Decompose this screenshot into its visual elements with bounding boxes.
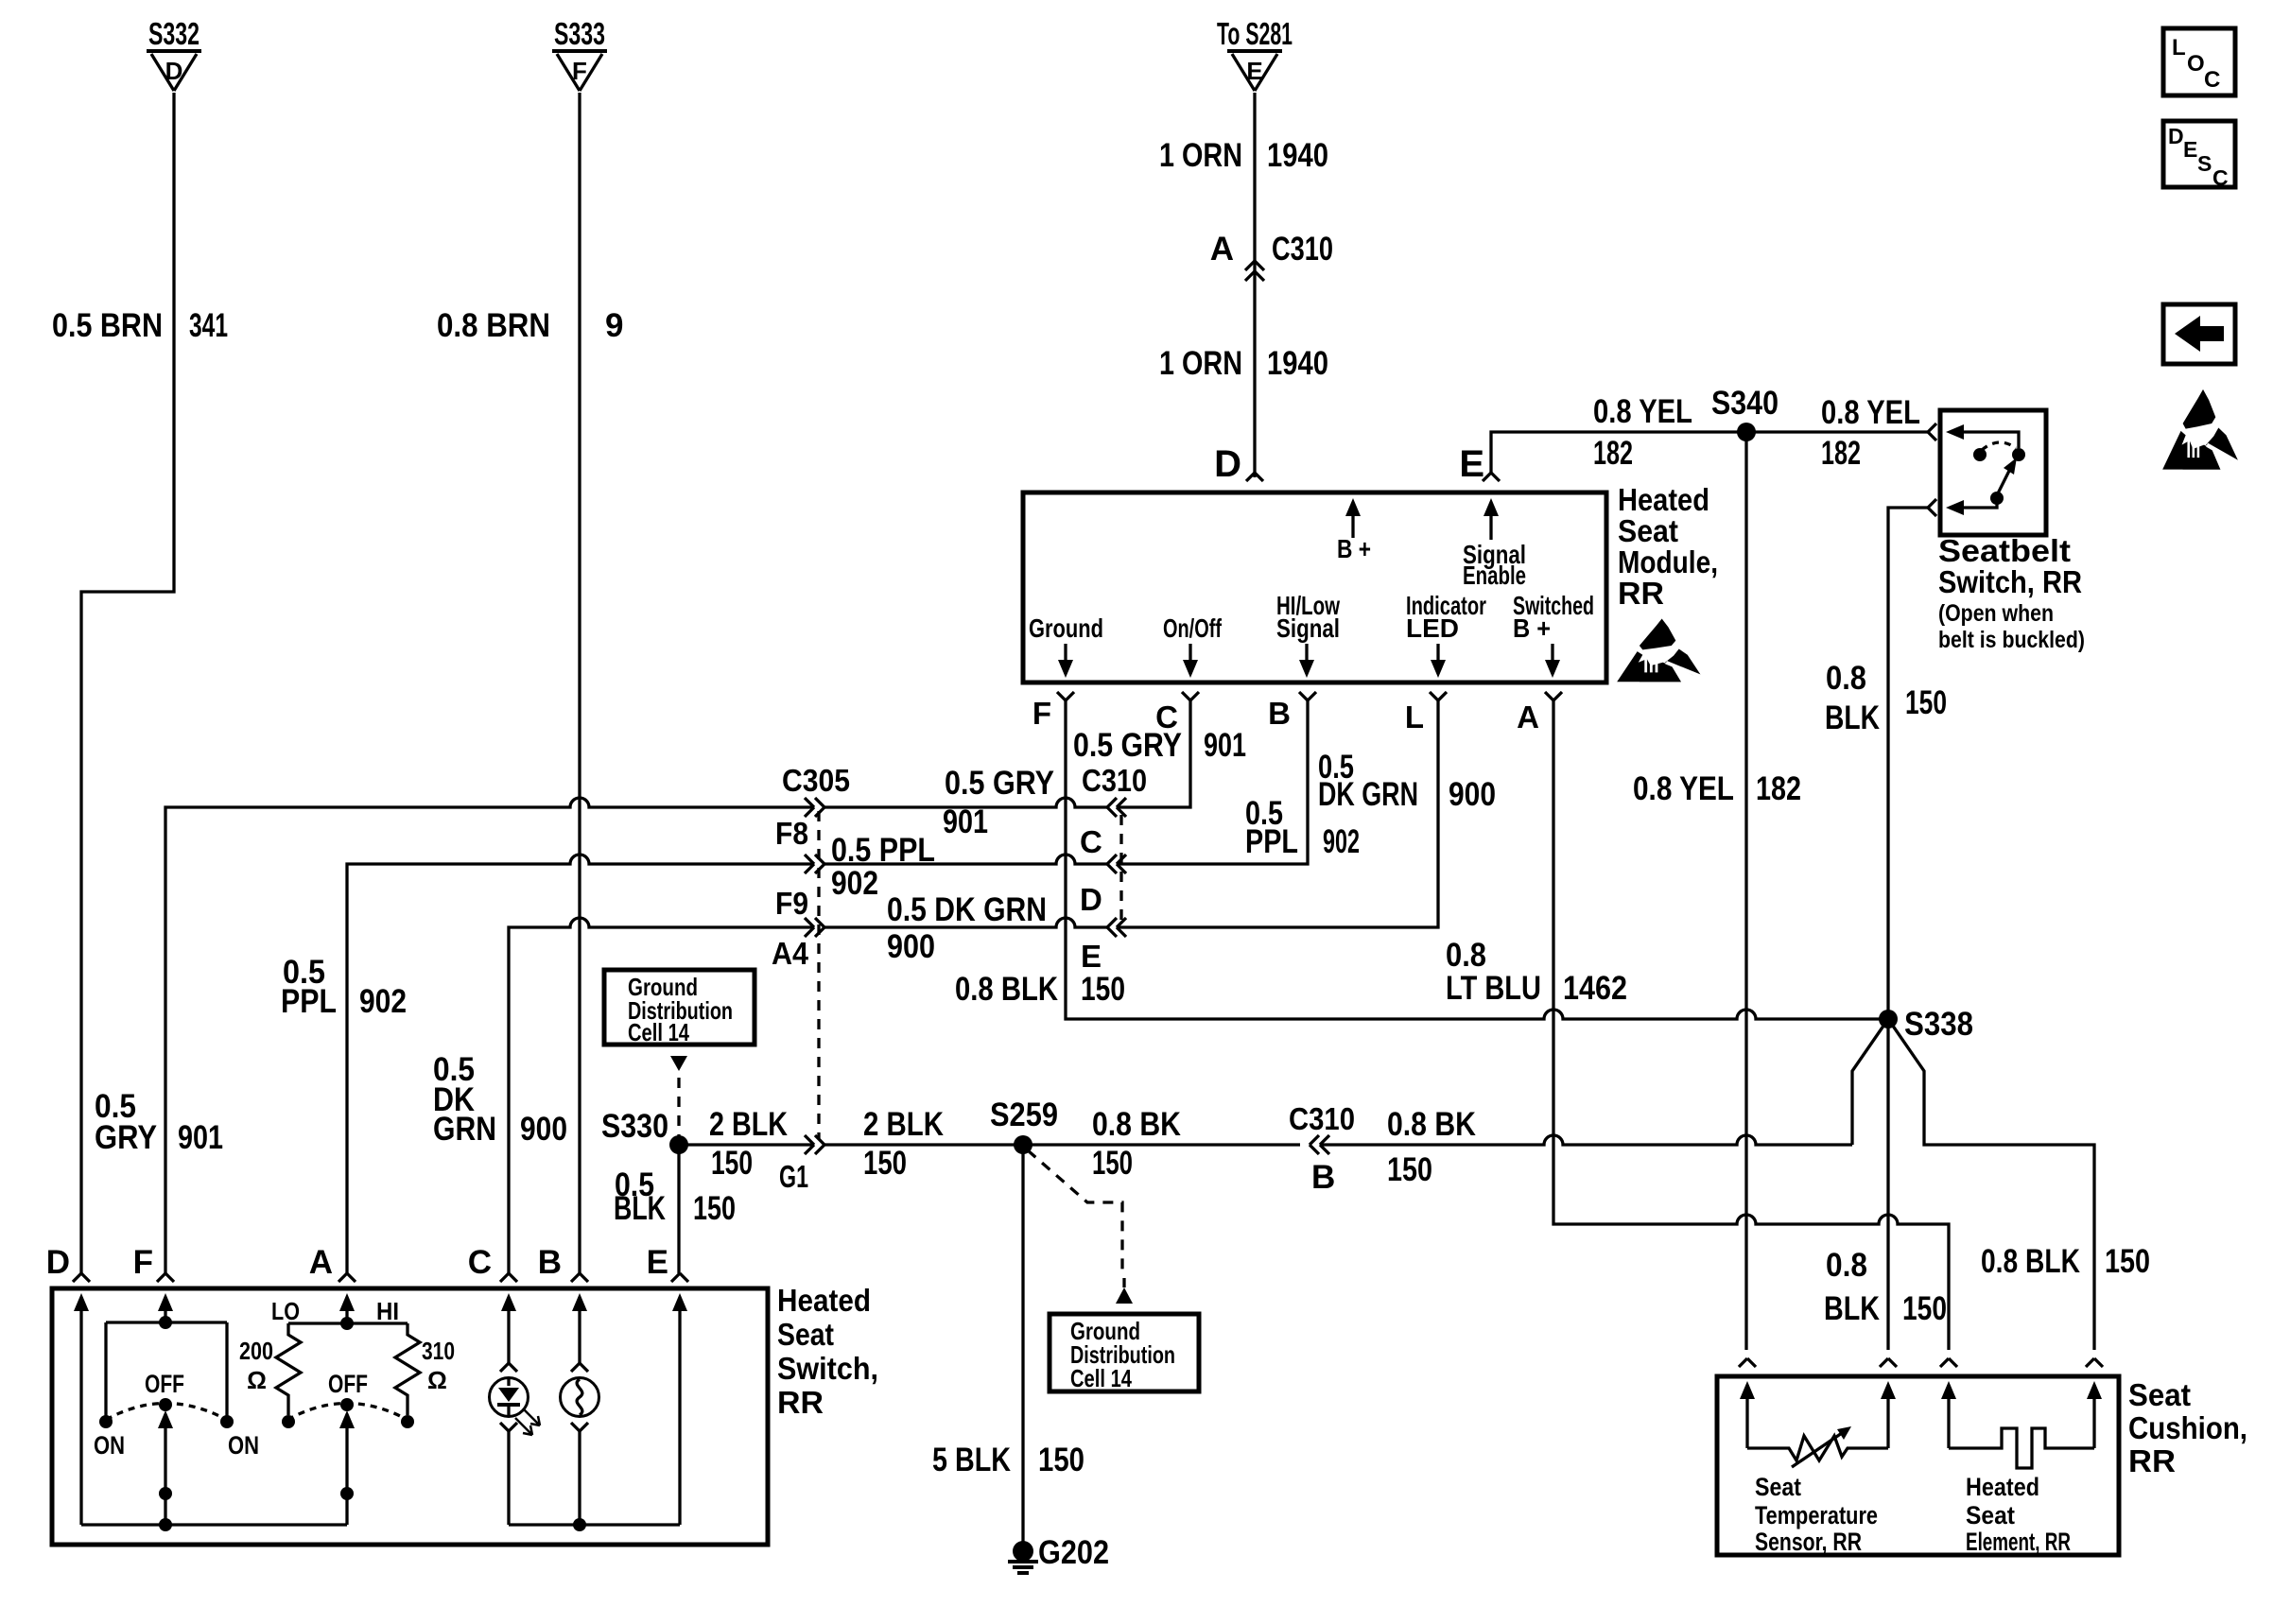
connector C310 pin A on ORN wire xyxy=(1245,261,1264,270)
svg-text:2 BLK: 2 BLK xyxy=(709,1106,788,1143)
wire 0.5 GRY 901 left run xyxy=(165,798,814,1273)
wire 0.5 DK GRN 900 left run xyxy=(509,918,814,1273)
svg-text:901: 901 xyxy=(943,803,988,840)
back-arrow icon xyxy=(2163,304,2235,364)
svg-text:150: 150 xyxy=(693,1190,736,1227)
svg-text:Seat: Seat xyxy=(2128,1377,2191,1412)
svg-text:(Open when: (Open when xyxy=(1938,600,2054,627)
svg-text:S259: S259 xyxy=(990,1097,1058,1133)
svg-text:GRN: GRN xyxy=(433,1111,496,1148)
svg-text:LED: LED xyxy=(1406,613,1459,643)
svg-text:900: 900 xyxy=(520,1111,567,1148)
svg-text:Heated: Heated xyxy=(1966,1473,2039,1501)
svg-text:To S281: To S281 xyxy=(1217,16,1293,51)
svg-text:G202: G202 xyxy=(1038,1534,1109,1571)
svg-text:OFF: OFF xyxy=(328,1370,368,1398)
C310 connector chevrons row D xyxy=(1107,855,1117,873)
svg-text:900: 900 xyxy=(1449,776,1496,813)
Ground Distribution Cell 14 box right xyxy=(1050,1314,1199,1391)
on/off OFF contact xyxy=(159,1398,172,1411)
svg-text:0.5 GRY: 0.5 GRY xyxy=(945,765,1054,802)
svg-text:BLK: BLK xyxy=(1824,1290,1880,1327)
ground bus to S259 and C310 B xyxy=(824,1143,1300,1146)
resistor 310 ohm xyxy=(395,1323,420,1415)
module internal Signal Enable arrow xyxy=(1489,514,1492,540)
C305 chevrons row A4 xyxy=(805,918,814,937)
lo/hi dashed travel arc xyxy=(287,1404,408,1421)
wire 0.5 BRN 341 from S332 to switch pin D xyxy=(81,93,174,1273)
svg-text:Switch, RR: Switch, RR xyxy=(1938,564,2082,599)
svg-text:902: 902 xyxy=(359,983,407,1020)
svg-text:E: E xyxy=(1081,939,1102,974)
svg-text:1940: 1940 xyxy=(1267,345,1328,382)
svg-text:902: 902 xyxy=(1323,823,1360,860)
svg-text:Seat: Seat xyxy=(1618,513,1678,548)
svg-text:E: E xyxy=(1459,443,1484,485)
svg-text:O: O xyxy=(2187,51,2205,77)
svg-text:Cushion,: Cushion, xyxy=(2128,1410,2247,1445)
svg-text:182: 182 xyxy=(1821,435,1861,472)
splice S340 xyxy=(1737,423,1756,441)
svg-text:1940: 1940 xyxy=(1267,137,1328,174)
svg-text:F8: F8 xyxy=(775,816,808,851)
svg-text:On/Off: On/Off xyxy=(1163,613,1222,643)
svg-text:A: A xyxy=(1210,231,1234,268)
svg-text:0.8 YEL: 0.8 YEL xyxy=(1593,393,1692,430)
svg-text:C310: C310 xyxy=(1082,763,1147,798)
svg-text:B +: B + xyxy=(1513,613,1551,643)
svg-text:C: C xyxy=(2212,165,2229,190)
svg-text:0.5 BRN: 0.5 BRN xyxy=(52,307,163,344)
C310 connector chevrons row E xyxy=(1107,918,1117,937)
svg-text:E: E xyxy=(2183,137,2197,162)
svg-text:E: E xyxy=(647,1244,668,1281)
splice S259 xyxy=(1014,1135,1032,1154)
Seat Cushion RR box xyxy=(1717,1376,2119,1555)
svg-text:Heated: Heated xyxy=(1618,482,1709,517)
svg-text:ON: ON xyxy=(228,1431,259,1460)
C310 pin B chevrons xyxy=(1310,1135,1319,1154)
svg-text:B: B xyxy=(1311,1159,1335,1196)
wire 1 ORN 1940 upper xyxy=(1253,93,1256,477)
ground wire 0.8 BK 150 C310 B to S338 xyxy=(1320,1135,1852,1145)
wire 0.8 YEL 182 S340 down to seat cushion pin 1 xyxy=(1744,432,1747,1350)
module pin forks below xyxy=(1057,692,1074,700)
svg-text:Cell 14: Cell 14 xyxy=(1070,1364,1132,1392)
wire 5 BLK 150 S259 to G202 xyxy=(1021,1145,1024,1551)
svg-text:200: 200 xyxy=(239,1337,273,1365)
wire 0.5 GRY 901 module On/Off pin C to C310 xyxy=(1119,700,1190,807)
svg-text:D: D xyxy=(1214,443,1241,485)
svg-text:F: F xyxy=(572,57,587,85)
svg-text:310: 310 xyxy=(422,1337,455,1365)
resistor 200 ohm xyxy=(276,1323,301,1415)
svg-text:S332: S332 xyxy=(148,16,200,51)
svg-text:902: 902 xyxy=(831,865,878,902)
Seatbelt Switch RR box xyxy=(1940,410,2046,535)
svg-text:A4: A4 xyxy=(772,936,809,971)
seatbelt second contact xyxy=(1973,448,1987,461)
wire 0.5 PPL 902 module HI/Low pin B to C310 xyxy=(1119,700,1308,864)
switch ground bus xyxy=(81,1523,347,1526)
svg-text:0.8 BLK: 0.8 BLK xyxy=(1981,1243,2080,1280)
ESD symbol top right xyxy=(2162,389,2239,470)
svg-text:belt is buckled): belt is buckled) xyxy=(1938,627,2085,653)
svg-text:Module,: Module, xyxy=(1618,544,1718,579)
lo/hi wiper arrow xyxy=(345,1425,348,1525)
svg-text:S333: S333 xyxy=(554,16,605,51)
svg-text:LT BLU: LT BLU xyxy=(1446,970,1541,1007)
C305 chevrons row F9 xyxy=(805,855,814,873)
svg-text:Temperature: Temperature xyxy=(1755,1501,1878,1529)
svg-text:C: C xyxy=(2204,67,2220,93)
svg-text:G1: G1 xyxy=(779,1159,808,1194)
svg-text:L: L xyxy=(1405,700,1424,734)
svg-text:0.8 BRN: 0.8 BRN xyxy=(437,307,550,344)
svg-text:182: 182 xyxy=(1593,435,1633,472)
switch pin D internal wire to bus xyxy=(79,1328,82,1525)
svg-text:5 BLK: 5 BLK xyxy=(932,1442,1011,1478)
svg-text:BLK: BLK xyxy=(614,1190,666,1227)
ground G202 xyxy=(1013,1541,1033,1562)
svg-text:0.8 BK: 0.8 BK xyxy=(1387,1106,1476,1143)
C305 chevrons row F8 xyxy=(805,798,814,817)
wire 0.5 BLK 150 S330 to switch pin E xyxy=(677,1145,680,1273)
svg-text:150: 150 xyxy=(711,1145,753,1182)
splice S330 xyxy=(669,1135,688,1154)
svg-text:Heated: Heated xyxy=(777,1283,871,1318)
svg-text:182: 182 xyxy=(1756,770,1801,807)
svg-text:0.8 YEL: 0.8 YEL xyxy=(1821,394,1920,431)
wire 0.8 BRN 9 from S333 to switch pin B xyxy=(578,93,581,1273)
seatbelt internal top wire xyxy=(1961,432,2019,448)
svg-text:150: 150 xyxy=(1081,971,1125,1008)
svg-text:A: A xyxy=(1517,700,1539,734)
wire 0.8 BLK 150 seatbelt to S338 and seat cushion pin 2 xyxy=(1888,508,1928,1350)
C305 pin G1 chevrons xyxy=(805,1135,814,1154)
svg-text:D: D xyxy=(165,57,183,85)
svg-text:150: 150 xyxy=(1092,1145,1133,1182)
svg-text:150: 150 xyxy=(1038,1442,1084,1478)
pointer triangle above right GD box xyxy=(1116,1287,1133,1304)
svg-text:150: 150 xyxy=(1387,1151,1432,1188)
svg-text:901: 901 xyxy=(1204,727,1246,764)
svg-text:ON: ON xyxy=(94,1431,125,1460)
heated seat element xyxy=(1949,1428,2094,1468)
svg-text:Switch,: Switch, xyxy=(777,1351,878,1386)
svg-text:1 ORN: 1 ORN xyxy=(1159,137,1242,174)
svg-text:RR: RR xyxy=(2128,1443,2176,1478)
dashed path S259 to right GD box xyxy=(1028,1150,1122,1276)
switch pin forks xyxy=(73,1273,90,1282)
svg-text:0.5 PPL: 0.5 PPL xyxy=(831,832,935,869)
module internal B+ arrow xyxy=(1351,514,1354,538)
svg-text:Cell 14: Cell 14 xyxy=(628,1018,689,1046)
svg-text:Ω: Ω xyxy=(247,1366,267,1394)
wire 0.5 DK GRN 900 module Indicator pin L to C310 xyxy=(1119,700,1438,927)
Heated Seat Switch RR box xyxy=(52,1288,768,1545)
seat cushion pin forks xyxy=(1739,1358,1756,1367)
svg-text:F9: F9 xyxy=(775,886,808,921)
switch internal pin arrows xyxy=(74,1293,89,1311)
svg-text:Element, RR: Element, RR xyxy=(1966,1528,2071,1556)
svg-text:RR: RR xyxy=(777,1385,824,1420)
seatbelt movable arm xyxy=(1997,469,2010,495)
LED common bus xyxy=(509,1523,680,1526)
svg-text:D: D xyxy=(2168,124,2184,148)
S338 right branch to seat cushion pin 4 xyxy=(1888,1019,2094,1350)
svg-text:2 BLK: 2 BLK xyxy=(863,1106,944,1143)
svg-text:B: B xyxy=(538,1244,562,1281)
svg-text:C305: C305 xyxy=(782,763,850,798)
seat temperature sensor xyxy=(1747,1436,1888,1460)
svg-text:LO: LO xyxy=(271,1297,300,1325)
svg-text:0.8 BK: 0.8 BK xyxy=(1092,1106,1181,1143)
svg-text:C310: C310 xyxy=(1272,231,1333,268)
svg-text:Ω: Ω xyxy=(427,1366,447,1394)
svg-text:C: C xyxy=(1080,824,1102,859)
svg-text:RR: RR xyxy=(1618,576,1664,611)
svg-text:0.5 GRY: 0.5 GRY xyxy=(1073,727,1182,764)
svg-text:S338: S338 xyxy=(1904,1006,1973,1043)
svg-text:0.8: 0.8 xyxy=(1826,1247,1867,1284)
wire 0.8 LT BLU 1462 module A to seat cushion pin 3 xyxy=(1553,700,1949,1350)
svg-text:HI: HI xyxy=(376,1297,399,1325)
lo/hi switch top bar xyxy=(288,1323,408,1328)
switch pin E internal wire xyxy=(678,1328,681,1525)
svg-text:B +: B + xyxy=(1337,534,1371,563)
on/off dashed travel arc xyxy=(106,1404,227,1421)
wire 0.8 YEL 182 module E to seatbelt switch xyxy=(1491,432,1928,473)
C310 dashed connector line xyxy=(1119,815,1122,922)
svg-text:901: 901 xyxy=(178,1119,223,1156)
svg-text:DK GRN: DK GRN xyxy=(1318,776,1418,813)
svg-text:D: D xyxy=(46,1244,70,1281)
svg-text:C: C xyxy=(468,1244,492,1281)
seatbelt internal bottom wire xyxy=(1961,498,1997,508)
svg-text:S340: S340 xyxy=(1711,385,1778,422)
S338 left branch to ground bus xyxy=(1852,1019,1888,1145)
svg-text:PPL: PPL xyxy=(1245,823,1298,860)
svg-text:OFF: OFF xyxy=(145,1370,184,1398)
seatbelt dashed travel arc xyxy=(1982,442,2016,450)
on/off wiper arrow xyxy=(164,1425,166,1525)
svg-text:Seat: Seat xyxy=(1966,1501,2015,1529)
svg-text:A: A xyxy=(309,1244,333,1281)
seatbelt switch connector forks xyxy=(1928,423,1936,441)
splice S338 xyxy=(1879,1010,1898,1028)
svg-text:0.8: 0.8 xyxy=(1826,660,1866,697)
svg-text:Seat: Seat xyxy=(777,1317,834,1352)
svg-text:Seat: Seat xyxy=(1755,1473,1801,1501)
module internal down arrows xyxy=(1064,644,1067,662)
svg-text:9: 9 xyxy=(605,307,623,344)
Ground Distribution Cell 14 box left xyxy=(604,970,755,1045)
wire 0.8 BLK 150 module Ground pin F down to S338 xyxy=(1066,700,1888,1019)
DESC icon xyxy=(2163,121,2235,187)
ground bus wire 2 BLK 150 xyxy=(679,1143,814,1146)
Heated Seat Module RR box xyxy=(1023,492,1606,682)
svg-text:E: E xyxy=(1246,57,1262,85)
svg-text:C310: C310 xyxy=(1289,1101,1355,1136)
indicator lamp xyxy=(578,1328,581,1363)
seat cushion internal arrows xyxy=(1740,1381,1755,1399)
LOC icon xyxy=(2163,28,2235,95)
svg-text:341: 341 xyxy=(189,307,228,344)
svg-text:BLK: BLK xyxy=(1825,700,1880,736)
svg-text:S330: S330 xyxy=(601,1108,668,1145)
svg-text:150: 150 xyxy=(1902,1290,1947,1327)
svg-text:GRY: GRY xyxy=(95,1119,157,1156)
seatbelt fixed contact xyxy=(2012,448,2025,461)
svg-text:150: 150 xyxy=(2105,1243,2150,1280)
svg-text:D: D xyxy=(1080,882,1102,917)
svg-text:F: F xyxy=(1032,696,1051,731)
pointer triangle below left GD box xyxy=(670,1056,687,1071)
svg-text:150: 150 xyxy=(863,1145,907,1182)
svg-text:Sensor, RR: Sensor, RR xyxy=(1755,1528,1862,1556)
svg-text:S: S xyxy=(2197,151,2212,176)
svg-text:B: B xyxy=(1268,696,1291,731)
svg-text:0.8 BLK: 0.8 BLK xyxy=(955,971,1058,1008)
svg-text:0.5 DK GRN: 0.5 DK GRN xyxy=(887,891,1047,928)
on/off switch contacts xyxy=(106,1322,227,1422)
svg-text:Signal: Signal xyxy=(1276,613,1340,643)
svg-text:150: 150 xyxy=(1905,684,1947,721)
ESD symbol at module xyxy=(1617,618,1701,682)
wire 0.5 PPL 902 left run xyxy=(347,855,814,1273)
svg-text:Ground: Ground xyxy=(1029,613,1103,643)
C310 connector chevrons row C xyxy=(1107,798,1117,817)
svg-text:Seatbelt: Seatbelt xyxy=(1938,533,2071,568)
svg-text:F: F xyxy=(133,1244,153,1281)
svg-text:1462: 1462 xyxy=(1563,970,1627,1007)
svg-text:0.8 YEL: 0.8 YEL xyxy=(1633,770,1734,807)
lo/hi OFF contact xyxy=(340,1398,354,1411)
svg-text:900: 900 xyxy=(887,928,935,965)
C305 dashed connector line xyxy=(817,811,820,1139)
svg-text:1 ORN: 1 ORN xyxy=(1159,345,1242,382)
svg-text:0.8: 0.8 xyxy=(1446,937,1486,974)
on/off switch top bar xyxy=(106,1322,227,1328)
svg-text:PPL: PPL xyxy=(281,983,337,1020)
indicator LED xyxy=(507,1328,510,1363)
svg-text:Enable: Enable xyxy=(1463,561,1526,590)
LED light arrows xyxy=(523,1408,540,1425)
svg-text:L: L xyxy=(2172,35,2186,60)
